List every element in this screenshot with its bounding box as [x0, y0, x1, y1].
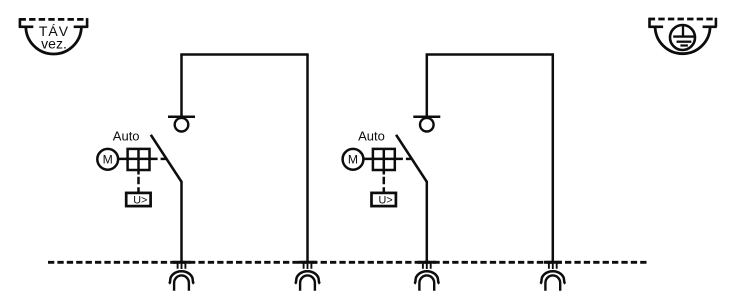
plug-in contact fork 1 [169, 262, 194, 291]
linkage line M to box [118, 158, 158, 161]
plug-in contact fork 4 [540, 262, 565, 291]
ground bar 1 [673, 35, 694, 37]
box cross horizontal [373, 158, 395, 161]
contact bar [168, 116, 195, 119]
relay box U> [126, 193, 150, 206]
ground bar 2 [677, 41, 692, 43]
motor circle M [343, 149, 364, 170]
linkage dash to blade [161, 158, 166, 161]
plug-in contact fork 3 [414, 262, 439, 291]
svg-text:Auto: Auto [358, 129, 385, 144]
wire: left drop to contact [180, 55, 183, 117]
dashed link to U> relay [137, 177, 140, 193]
plug-in contact fork 2 [295, 262, 320, 291]
svg-text:U>: U> [379, 194, 393, 206]
relay box U> [372, 193, 396, 206]
svg-text:M: M [103, 153, 113, 167]
svg-text:vez.: vez. [41, 36, 67, 52]
switch blade [396, 135, 427, 182]
ground bar 3 [680, 44, 688, 46]
trip unit box (crossed square) [128, 149, 150, 170]
wire: right column [552, 55, 555, 263]
trip unit box (crossed square) [373, 149, 395, 170]
wire: right column [306, 55, 309, 263]
remote control symbol "TÁV vez." [19, 18, 89, 54]
dashed link to U> relay [383, 177, 386, 193]
box cross horizontal [128, 158, 150, 161]
wire: below blade to busbar [426, 181, 429, 262]
wire: below blade to busbar [180, 181, 183, 262]
wire: top horizontal [426, 53, 554, 56]
busbar (dashed) [48, 261, 647, 264]
linkage line M to box [363, 158, 403, 161]
svg-text:U>: U> [133, 194, 147, 206]
wire: left drop to contact [426, 55, 429, 117]
ground stem [682, 25, 684, 36]
box cross vertical [137, 149, 140, 175]
linkage dash to blade [406, 158, 411, 161]
box cross vertical [383, 149, 386, 175]
contact bar [413, 116, 440, 119]
ground circle [670, 25, 695, 50]
svg-text:Auto: Auto [113, 129, 140, 144]
contact circle [420, 118, 434, 132]
wire: top horizontal [180, 53, 308, 56]
motor circle M [97, 149, 118, 170]
switch blade [151, 135, 182, 182]
contact circle [175, 118, 189, 132]
earth symbol (circle with ground) [648, 18, 717, 54]
svg-text:M: M [348, 153, 358, 167]
